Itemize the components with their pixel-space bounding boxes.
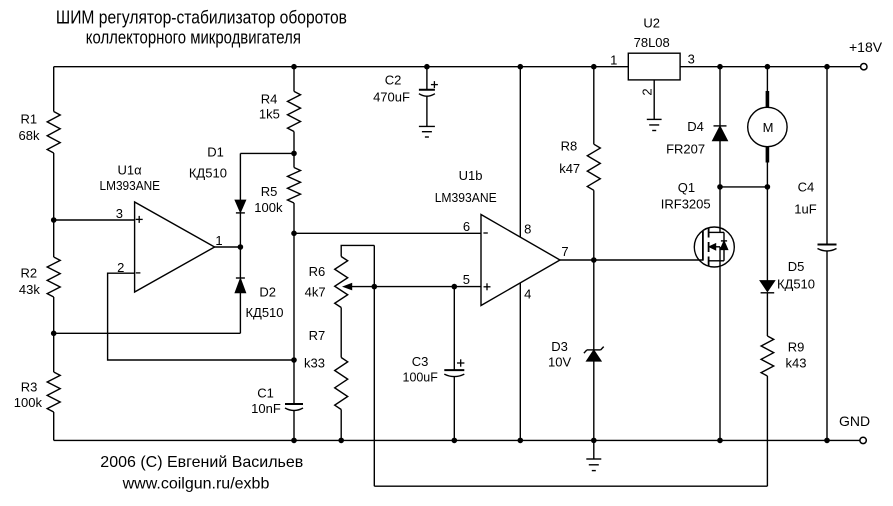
resistor R5	[288, 168, 301, 204]
svg-text:R7: R7	[309, 328, 326, 343]
diode D1 КД510	[235, 200, 245, 212]
node pin 4 rail junction	[518, 438, 524, 444]
svg-text:+18V: +18V	[849, 39, 883, 55]
svg-text:коллекторного микродвигателя: коллекторного микродвигателя	[86, 27, 301, 47]
node C3 bottom junction	[452, 438, 458, 444]
svg-text:10nF: 10nF	[251, 401, 281, 416]
resistor R9 k43	[761, 336, 774, 376]
wire motor bottom lead	[766, 163, 768, 187]
wire top rail (+18V side)	[680, 66, 860, 68]
ground symbol below C2	[419, 125, 435, 127]
svg-text:D2: D2	[259, 284, 276, 299]
node R8 top junction	[591, 64, 597, 70]
motor M	[766, 91, 770, 107]
wire Q1 drain lead	[719, 187, 721, 233]
wire R8 bottom lead	[593, 190, 595, 260]
pin 8 wire (V+)	[519, 67, 521, 238]
wire pin 5 (to U1b non-inverting input)	[374, 286, 481, 288]
wire D5 anode lead	[766, 187, 768, 281]
op-amp U1a	[135, 202, 215, 292]
svg-text:C1: C1	[257, 386, 274, 401]
wire C2 bottom lead	[426, 96, 428, 127]
node D4 top junction	[717, 64, 723, 70]
node GND terminal	[860, 437, 866, 443]
node D3 bottom junction	[591, 438, 597, 444]
wire D2 anode lead	[239, 293, 241, 334]
svg-text:68k: 68k	[19, 128, 40, 143]
wire pin 7 output of U1b	[560, 259, 594, 261]
svg-text:C3: C3	[412, 354, 429, 369]
node B junction (R2/R3, D2 anode)	[51, 331, 57, 337]
svg-text:LM393ANE: LM393ANE	[100, 178, 161, 193]
svg-text:2: 2	[117, 260, 124, 275]
resistor R4	[288, 91, 301, 131]
svg-text:k47: k47	[559, 161, 580, 176]
svg-text:D3: D3	[551, 339, 568, 354]
node R7 bottom junction	[338, 438, 344, 444]
node Q1 source rail junction	[717, 438, 723, 444]
wire R5 top lead	[293, 153, 295, 167]
node motor top junction	[765, 64, 771, 70]
node C4 top junction	[824, 64, 830, 70]
capacitor C4 1uF	[818, 244, 837, 246]
svg-text:100uF: 100uF	[403, 370, 438, 385]
svg-text:LM393ANE: LM393ANE	[435, 190, 497, 205]
svg-text:U2: U2	[643, 15, 660, 30]
node A junction (R1/R2, pin3)	[51, 217, 57, 223]
node +18V terminal	[861, 63, 867, 69]
svg-text:IRF3205: IRF3205	[661, 197, 711, 212]
wire R4 top lead	[293, 67, 295, 92]
node D4/Q1/motor junction	[717, 184, 723, 190]
svg-text:www.coilgun.ru/exbb: www.coilgun.ru/exbb	[122, 476, 270, 493]
node C2 top junction	[424, 64, 430, 70]
wire pin 1 output of U1a	[215, 246, 241, 248]
wire D1 top to R4/R5 node	[240, 152, 294, 154]
wire pin 2 (U1a inverting input)	[108, 273, 294, 360]
wire feedback up to R9	[766, 376, 768, 486]
node output junction (D1/D2)	[238, 244, 244, 250]
wire C1 top lead	[293, 360, 295, 404]
node R5/pin6 junction	[291, 231, 297, 237]
svg-text:100k: 100k	[14, 395, 43, 410]
resistor R7 k33	[335, 358, 348, 410]
wire D2 cathode to output node	[239, 247, 241, 278]
wire R3 to bottom rail	[53, 412, 55, 440]
svg-text:R4: R4	[261, 91, 278, 106]
wire R6 top jumper	[341, 245, 374, 256]
wire R7 bottom lead	[340, 410, 342, 441]
svg-text:C2: C2	[385, 73, 402, 88]
svg-text:D1: D1	[207, 145, 224, 160]
op-amp U1b	[481, 215, 560, 306]
svg-text:10V: 10V	[548, 355, 571, 370]
svg-text:D4: D4	[687, 119, 704, 134]
wire R6 to R7	[340, 308, 342, 358]
svg-text:GND: GND	[839, 413, 870, 429]
svg-text:КД510: КД510	[777, 276, 815, 291]
wire node A to R2	[53, 220, 55, 257]
svg-text:FR207: FR207	[666, 142, 705, 157]
wire Q1 source to bottom rail	[719, 261, 721, 441]
node C3 top junction	[452, 284, 458, 290]
diode D2 КД510	[236, 277, 245, 279]
wire R4 bottom lead	[293, 132, 295, 154]
wire C1 bottom lead	[293, 411, 295, 441]
wire R8 top lead	[593, 67, 595, 145]
wire C3 bottom lead	[453, 377, 455, 441]
ground symbol below bottom rail	[586, 458, 601, 460]
wire R1 to node A	[53, 153, 55, 220]
svg-text:КД510: КД510	[189, 165, 227, 180]
svg-text:U1α: U1α	[118, 163, 143, 178]
svg-text:4: 4	[524, 287, 531, 302]
svg-text:D5: D5	[788, 259, 805, 274]
wire R2 to node B	[53, 297, 55, 333]
wire C4 bottom lead	[826, 251, 828, 441]
svg-text:R8: R8	[561, 139, 578, 154]
svg-text:ШИМ регулятор-стабилизатор обо: ШИМ регулятор-стабилизатор оборотов	[56, 8, 347, 28]
node pin2/C1 junction	[291, 357, 297, 363]
potentiometer R6 4k7	[335, 257, 348, 308]
svg-text:470uF: 470uF	[373, 89, 410, 104]
wire R5 bottom lead	[293, 203, 295, 233]
svg-text:8: 8	[524, 222, 531, 237]
resistor R3	[47, 372, 60, 412]
wire wiper node vertical	[373, 245, 375, 486]
wire top rail (8V side)	[54, 66, 629, 68]
node wiper/pin5 junction	[372, 284, 378, 290]
node C1 bottom junction	[291, 438, 297, 444]
wire C2 top lead	[426, 67, 428, 90]
svg-text:6: 6	[463, 219, 470, 234]
wire motor top lead	[766, 67, 768, 91]
capacitor C3 100uF	[444, 369, 464, 371]
voltage regulator U2 78L08	[628, 53, 680, 80]
wire ground stub	[593, 440, 595, 459]
wire D3 anode lead	[593, 361, 595, 441]
svg-text:100k: 100k	[254, 200, 283, 215]
svg-text:1uF: 1uF	[794, 201, 816, 216]
wire node B to R3	[53, 333, 55, 372]
svg-text:3: 3	[116, 206, 123, 221]
svg-text:1k5: 1k5	[259, 107, 280, 122]
svg-text:R9: R9	[788, 339, 805, 354]
svg-text:2006 (С) Евгений Васильев: 2006 (С) Евгений Васильев	[100, 454, 303, 471]
capacitor C2 470uF	[419, 89, 435, 91]
svg-text:C4: C4	[798, 180, 815, 195]
svg-text:78L08: 78L08	[634, 35, 670, 50]
resistor R8 k47	[587, 144, 600, 190]
svg-text:R2: R2	[20, 265, 37, 280]
svg-text:2: 2	[640, 88, 655, 95]
svg-text:Q1: Q1	[678, 180, 695, 195]
svg-text:5: 5	[463, 272, 470, 287]
wire pin 6 (to U1b inverting input)	[294, 232, 481, 234]
svg-text:R1: R1	[20, 112, 37, 127]
transistor Q1 IRF3205	[694, 227, 734, 267]
svg-text:43k: 43k	[19, 282, 40, 297]
wire left rail top lead	[53, 67, 55, 112]
wire motor node to Q1 drain node	[720, 186, 767, 188]
wire pin 3 (node A to U1a)	[54, 219, 135, 221]
node pin7/R8/D3 junction	[591, 257, 597, 263]
wire gate (pin7 node to Q1 gate)	[594, 259, 703, 261]
capacitor C1 10nF	[285, 403, 303, 405]
wire C4 top lead	[826, 67, 828, 245]
node C4 bottom junction	[824, 438, 830, 444]
svg-text:k43: k43	[786, 355, 807, 370]
node motor/D5 junction	[765, 184, 771, 190]
wire D1 cathode to output node	[239, 213, 241, 247]
zener diode D3 10V	[587, 349, 601, 351]
wire R5 node down to pin2 node	[293, 233, 295, 360]
svg-text:3: 3	[688, 51, 695, 66]
diode D5 КД510	[760, 281, 774, 291]
node pin 8 rail junction	[518, 64, 524, 70]
svg-text:M: M	[763, 120, 774, 135]
svg-text:U1b: U1b	[459, 168, 483, 183]
wiper arrow of R6	[352, 286, 375, 288]
node R4 top junction	[291, 64, 297, 70]
pin 2 wire of U2	[653, 80, 655, 120]
svg-text:k33: k33	[304, 356, 325, 371]
wire D4 cathode lead	[719, 67, 721, 126]
wire C3 top lead	[453, 287, 455, 371]
wire bottom rail (GND)	[54, 439, 860, 441]
wire D3 cathode lead	[593, 260, 595, 350]
svg-text:1: 1	[610, 53, 617, 68]
svg-text:R3: R3	[21, 379, 38, 394]
wire D1 anode lead	[239, 153, 241, 200]
resistor R1	[47, 112, 60, 154]
diode D4 FR207	[714, 125, 727, 127]
wire feedback bottom horizontal	[374, 485, 767, 487]
svg-text:R6: R6	[309, 264, 326, 279]
svg-text:4k7: 4k7	[305, 285, 326, 300]
svg-text:1: 1	[215, 233, 222, 248]
ground symbol below U2	[647, 118, 662, 120]
svg-text:7: 7	[561, 244, 568, 259]
wire D2 anode to node B	[54, 332, 241, 334]
node R4/R5/D1 junction	[291, 151, 297, 157]
wire D4 anode lead	[719, 141, 721, 187]
svg-text:КД510: КД510	[245, 305, 283, 320]
wire D5 cathode to R9	[766, 293, 768, 336]
resistor R2	[47, 257, 60, 297]
pin 4 wire (V-)	[519, 283, 521, 441]
svg-text:R5: R5	[261, 184, 278, 199]
